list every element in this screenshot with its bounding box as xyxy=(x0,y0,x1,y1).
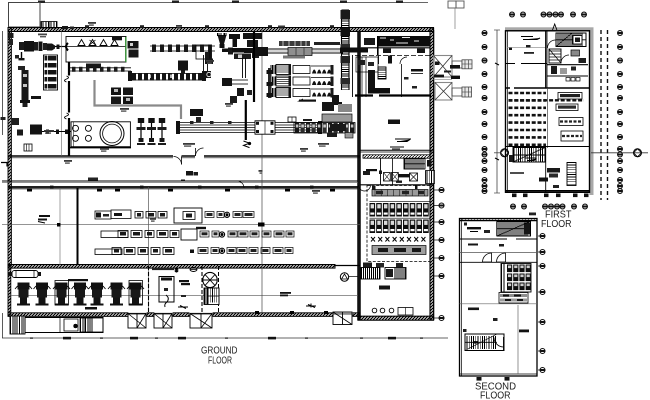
svg-text:FLOOR: FLOOR xyxy=(480,391,511,400)
svg-text:FLOOR: FLOOR xyxy=(541,219,572,230)
svg-text:FLOOR: FLOOR xyxy=(208,356,232,367)
